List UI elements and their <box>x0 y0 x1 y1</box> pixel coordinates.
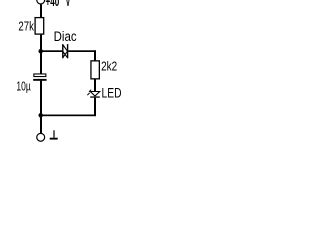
junction node at diac branch <box>38 49 43 54</box>
resistor 27k value label <box>18 18 34 33</box>
wire resistor 27k to capacitor 10u <box>40 35 42 74</box>
wire LED to bottom rail <box>94 98 96 116</box>
svg-text:27k: 27k <box>18 18 34 33</box>
svg-text:LED: LED <box>102 86 122 102</box>
diac symbol <box>62 44 68 58</box>
capacitor 10u positive plate <box>34 74 46 77</box>
supply terminal circle <box>37 0 45 4</box>
bottom rail wire <box>40 115 96 117</box>
svg-text:Diac: Diac <box>54 29 77 45</box>
wire resistor 2k2 to LED <box>94 80 96 92</box>
diac label <box>54 29 77 45</box>
svg-text:2k2: 2k2 <box>101 59 117 74</box>
svg-text:10µ: 10µ <box>16 78 31 93</box>
resistor 2k2 value label <box>101 59 117 74</box>
net label +40 V <box>46 0 71 10</box>
svg-text:+40: +40 <box>46 0 60 10</box>
capacitor 10u negative plate <box>33 79 46 81</box>
wire junction to diac <box>40 50 63 52</box>
wire capacitor to ground terminal <box>40 81 42 133</box>
svg-text:V: V <box>66 0 71 10</box>
ground symbol <box>50 130 58 139</box>
LED symbol <box>87 90 99 98</box>
junction node at bottom rail <box>38 113 43 118</box>
wire supply to resistor 27k <box>40 4 42 17</box>
wire diac to resistor 2k2 <box>68 50 96 60</box>
resistor 2k2 body <box>91 61 99 79</box>
capacitor 10u value label <box>16 78 31 93</box>
ground terminal circle <box>37 133 45 141</box>
resistor 27k body <box>35 18 44 34</box>
LED label <box>102 86 122 102</box>
